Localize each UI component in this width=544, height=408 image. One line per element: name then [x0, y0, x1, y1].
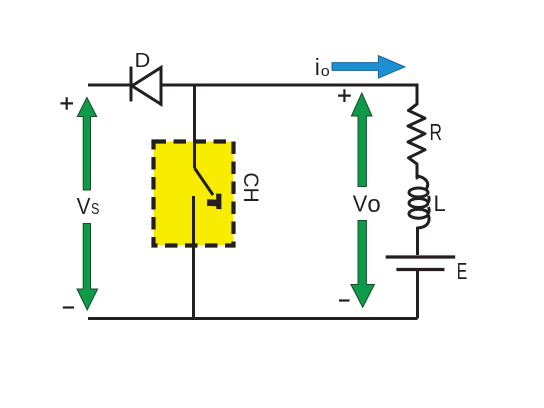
wire: switch top contact from top rail: [193, 85, 196, 168]
diode D: [131, 67, 161, 105]
wire: battery to bottom rail: [416, 271, 419, 319]
wire: inductor to battery: [416, 227, 419, 255]
label io: [315, 54, 330, 80]
svg-text:V: V: [77, 193, 91, 219]
current arrow io (blue): [332, 56, 405, 79]
plus sign of Vs: [61, 97, 74, 110]
Vo arrow up (green): [351, 93, 372, 187]
svg-text:i: i: [315, 54, 320, 80]
svg-text:CH: CH: [239, 172, 262, 202]
svg-text:E: E: [457, 258, 468, 284]
svg-text:D: D: [135, 50, 151, 72]
Vs arrow down (green): [77, 224, 98, 311]
Vs arrow up (green): [77, 98, 96, 191]
minus sign of Vs: [63, 306, 74, 308]
inductor L: [409, 176, 429, 228]
wire: bottom rail from Vs- to bottom-right corner: [88, 317, 418, 320]
Vo arrow down (green): [351, 221, 375, 308]
svg-text:o: o: [367, 191, 380, 218]
svg-text:S: S: [91, 201, 99, 218]
resistor R: [408, 104, 425, 178]
svg-text:o: o: [321, 63, 330, 80]
plus sign of Vo: [338, 89, 351, 102]
wire: top rail from Vs+ through diode node to top-right corner, down to R: [88, 85, 417, 105]
switch enclosure box CH (yellow dashed): [154, 142, 234, 246]
wire: switch bottom contact to bottom rail: [192, 196, 195, 319]
label Vo: [353, 190, 381, 217]
minus sign of Vo: [339, 299, 350, 301]
svg-text:V: V: [353, 190, 368, 216]
svg-text:L: L: [434, 191, 446, 216]
battery E: [386, 257, 456, 270]
label Vs: [77, 193, 100, 219]
svg-text:R: R: [430, 119, 443, 145]
switch CH (blade and arrowhead): [195, 168, 222, 209]
